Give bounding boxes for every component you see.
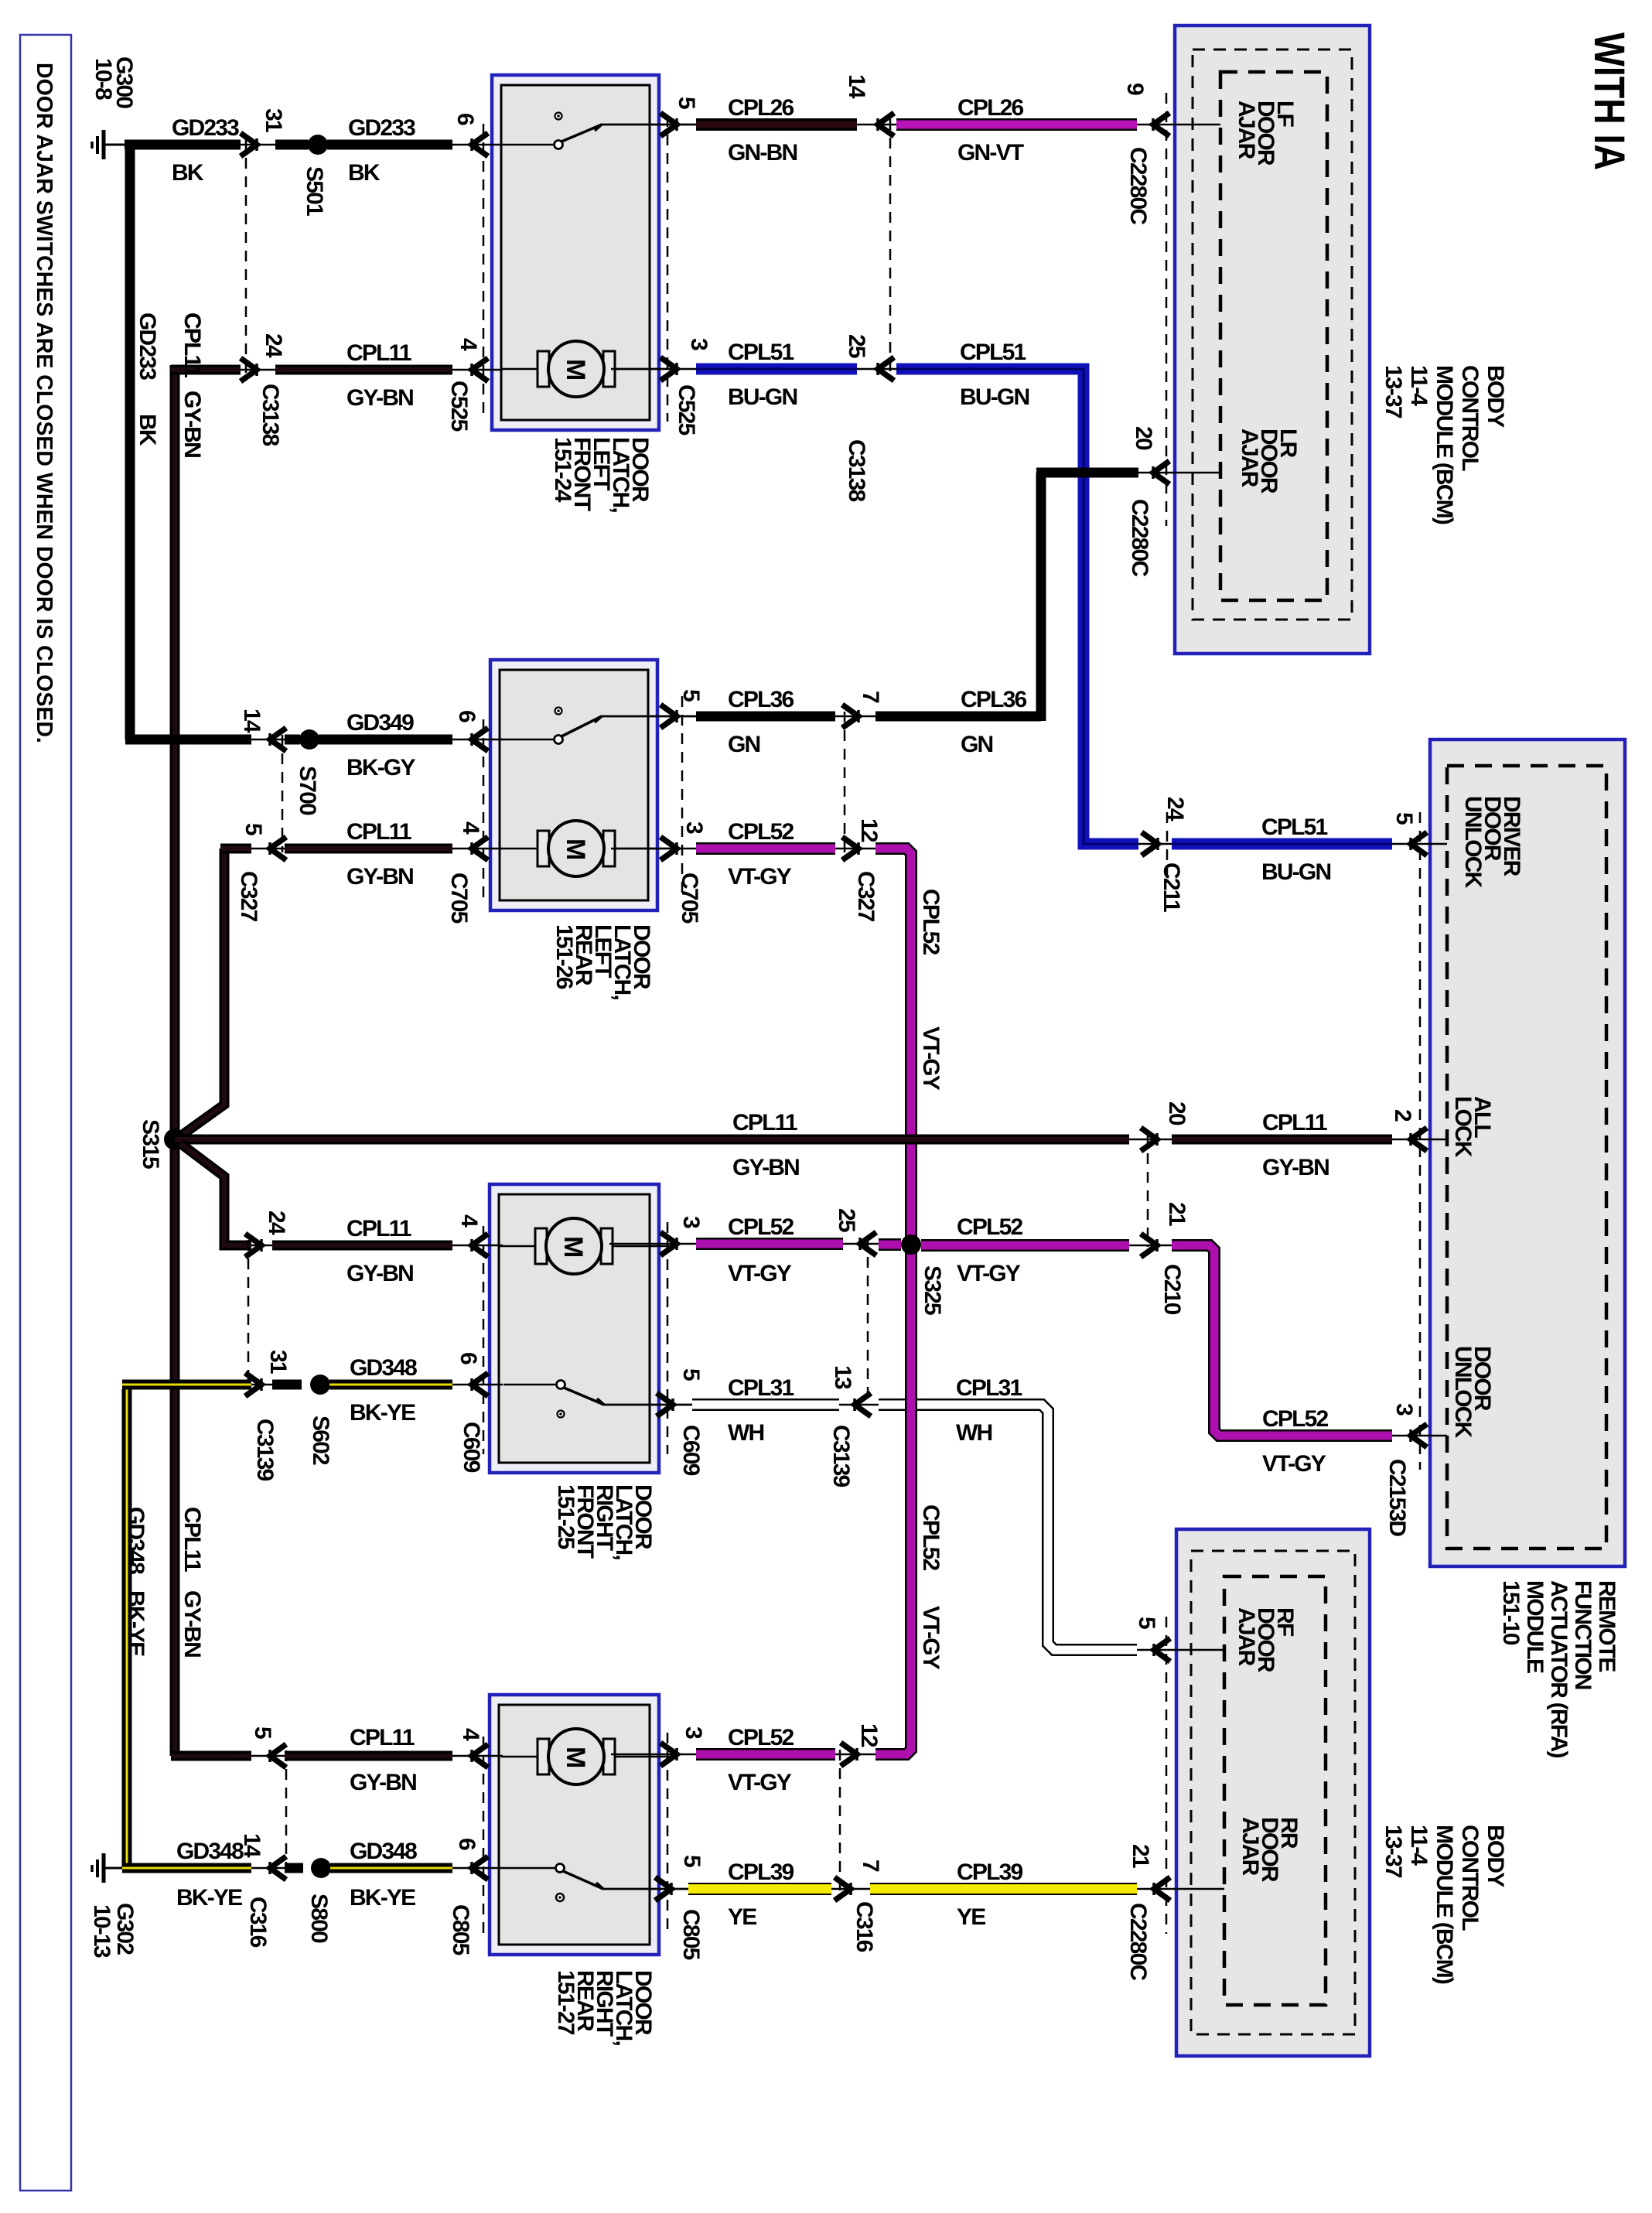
- wire CPL11 GY-BN main bus vertical (row B to S315 to row H): [175, 312, 205, 1756]
- svg-text:BK: BK: [348, 160, 381, 186]
- svg-text:GY-BN: GY-BN: [179, 1590, 205, 1657]
- svg-text:151-24: 151-24: [550, 437, 575, 503]
- svg-text:GD233: GD233: [172, 115, 239, 141]
- wire CPL36 GN C327 to BCM pin 20: [875, 473, 1220, 757]
- svg-text:6: 6: [454, 1838, 480, 1850]
- svg-text:CPL26: CPL26: [957, 95, 1023, 121]
- pin 2 RFA all lock: [1390, 1109, 1427, 1151]
- svg-text:AJAR: AJAR: [1237, 429, 1262, 488]
- svg-text:C3139: C3139: [252, 1419, 278, 1481]
- svg-text:C316: C316: [852, 1901, 877, 1952]
- svg-text:CPL51: CPL51: [1261, 815, 1327, 840]
- svg-text:C609: C609: [459, 1422, 484, 1473]
- wire CPL11 GY-BN S315 branch to row F corner: [180, 1143, 285, 1245]
- ground G300: [90, 56, 137, 159]
- svg-text:GY-BN: GY-BN: [179, 391, 205, 457]
- module BCM bottom (BODY CONTROL MODULE): [1176, 1529, 1508, 2056]
- pin 6 C525 left front: [452, 113, 488, 156]
- connector C316 right pin 7: [835, 1860, 883, 1952]
- wire GD349 BK-GY S700 to LR latch pin 6: [319, 710, 503, 780]
- svg-text:VT-GY: VT-GY: [918, 1606, 944, 1670]
- door latch left front box U-LF: [492, 75, 659, 512]
- note sidebar DOOR AJAR SWITCHES ARE CLOSED WHEN DOOR IS CLOSED: [20, 35, 71, 2191]
- svg-text:5: 5: [241, 823, 266, 835]
- svg-text:C609: C609: [678, 1425, 704, 1476]
- wire CPL11 GY-BN pin24 to RF latch pin 4: [272, 1216, 503, 1286]
- svg-text:13-37: 13-37: [1381, 1825, 1406, 1878]
- wire CPL52 VT-GY pin3 to C327: [696, 819, 875, 890]
- splice S501: [275, 135, 328, 216]
- svg-text:24: 24: [1162, 797, 1188, 821]
- connector C327 left pin 5: [236, 823, 286, 922]
- connector C3139 right pin 25: [834, 1208, 876, 1402]
- wire label CPL11 bus overlay: [179, 312, 205, 457]
- wire CPL11 GY-BN pin5 to LR latch pin 4: [285, 819, 503, 890]
- svg-text:CPL11: CPL11: [732, 1110, 797, 1136]
- pin 9 C2280C BCM: [1122, 83, 1169, 224]
- svg-text:24: 24: [261, 333, 286, 358]
- svg-text:C2280C: C2280C: [1125, 1903, 1151, 1980]
- svg-text:VT-GY: VT-GY: [728, 1770, 792, 1795]
- svg-text:6: 6: [456, 1352, 481, 1364]
- ground G302: [89, 1853, 138, 1958]
- pin 6 C609 right front: [456, 1352, 488, 1473]
- door latch left rear box U-LR: [490, 660, 657, 999]
- svg-text:GY-BN: GY-BN: [732, 1155, 799, 1180]
- svg-text:CONTROL: CONTROL: [1457, 365, 1483, 471]
- wire GD348 BK-YE G302 to pin 14: [122, 1839, 285, 1911]
- svg-text:CPL11: CPL11: [346, 1216, 411, 1241]
- pin 5 C805 right rear: [602, 1855, 705, 1960]
- svg-text:CPL52: CPL52: [728, 819, 794, 845]
- svg-text:C705: C705: [446, 873, 472, 924]
- connector C3139 left pin 31: [245, 1350, 291, 1481]
- svg-text:31: 31: [261, 108, 286, 132]
- svg-text:C211: C211: [1159, 862, 1184, 912]
- svg-text:10-8: 10-8: [90, 58, 116, 100]
- svg-text:3: 3: [681, 1726, 706, 1739]
- svg-text:CPL39: CPL39: [728, 1860, 794, 1885]
- svg-text:BK-YE: BK-YE: [350, 1885, 415, 1911]
- svg-text:14: 14: [239, 1833, 265, 1858]
- svg-text:C2280C: C2280C: [1127, 499, 1152, 576]
- svg-text:4: 4: [458, 821, 483, 835]
- svg-text:5: 5: [250, 1726, 275, 1739]
- svg-text:C805: C805: [678, 1909, 704, 1960]
- svg-text:S700: S700: [295, 766, 320, 815]
- connector C2280C dashed line at BCM bottom: [1166, 1617, 1168, 1934]
- svg-text:151-26: 151-26: [551, 924, 577, 989]
- svg-text:CPL36: CPL36: [961, 687, 1026, 712]
- svg-text:BK-YE: BK-YE: [123, 1590, 148, 1656]
- svg-text:C2280C: C2280C: [1125, 147, 1151, 224]
- svg-text:UNLOCK: UNLOCK: [1450, 1346, 1476, 1439]
- connector C3138 right pin 25: [844, 334, 894, 502]
- wire CPL11 GY-BN pin 24 to LF latch pin 4: [275, 340, 503, 411]
- svg-text:C3138: C3138: [844, 439, 869, 502]
- svg-text:CPL26: CPL26: [728, 95, 794, 121]
- wire CPL52 VT-GY vertical trunk row D to row H: [875, 849, 944, 1754]
- svg-text:25: 25: [844, 334, 869, 358]
- svg-text:S501: S501: [302, 166, 327, 216]
- motor M left rear: [501, 821, 677, 876]
- svg-text:10-13: 10-13: [89, 1904, 114, 1958]
- svg-text:S325: S325: [920, 1265, 945, 1315]
- svg-text:13: 13: [830, 1365, 855, 1389]
- svg-text:7: 7: [858, 1860, 883, 1872]
- wire GD233 BK segment S501 to LF latch pin 6: [327, 115, 503, 186]
- svg-text:3: 3: [678, 1216, 704, 1228]
- svg-text:AJAR: AJAR: [1237, 1817, 1263, 1877]
- svg-text:CPL52: CPL52: [918, 1504, 944, 1570]
- svg-text:14: 14: [844, 74, 869, 99]
- pin 3 C705 left rear: [611, 821, 707, 860]
- svg-text:CPL11: CPL11: [346, 819, 411, 845]
- connector RFA dashed line: [1419, 812, 1422, 1470]
- wire CPL51 BU-GN pin3 to C3138: [696, 340, 897, 410]
- svg-text:5: 5: [674, 97, 699, 109]
- svg-text:S315: S315: [138, 1119, 163, 1169]
- svg-text:5: 5: [1134, 1617, 1159, 1629]
- wire CPL31 WH C3139 to BCM pin 5 RF door ajar: [879, 1375, 1224, 1650]
- svg-text:C805: C805: [448, 1904, 473, 1955]
- svg-text:BK: BK: [172, 160, 204, 186]
- svg-text:6: 6: [454, 710, 480, 722]
- wire CPL11 GY-BN C210 to RFA pin 2 all lock: [1172, 1110, 1447, 1180]
- svg-text:CPL11: CPL11: [179, 1507, 205, 1572]
- svg-text:3: 3: [681, 821, 707, 834]
- svg-text:CPL52: CPL52: [1262, 1406, 1328, 1432]
- svg-text:C327: C327: [853, 871, 879, 922]
- wire CPL52 VT-GY pin3 to C3139 pin 25: [696, 1214, 879, 1286]
- switch left front door ajar: [501, 113, 696, 149]
- wire CPL52 VT-GY trunk overcross: [905, 1377, 917, 1431]
- svg-text:WH: WH: [728, 1420, 764, 1446]
- connector C211 pin 24: [1142, 797, 1188, 912]
- svg-text:CPL31: CPL31: [956, 1375, 1022, 1401]
- title WITH IA: [1585, 32, 1634, 170]
- wire CPL51 BU-GN C3138 to RFA pin 5 via C211: [896, 340, 1172, 844]
- wire GD349 corner bus to pin 14: [125, 735, 285, 745]
- wire CPL39 YE pin5 to C316 pin 7: [688, 1860, 870, 1930]
- svg-text:4: 4: [456, 1214, 482, 1228]
- connector C3138 left dashed: [245, 139, 247, 375]
- svg-text:AJAR: AJAR: [1234, 1607, 1259, 1667]
- pin 4 C805 right rear: [458, 1728, 488, 1767]
- wire GD233 BK segment G300 to pin 31: [125, 115, 285, 186]
- wire CPL52 VT-GY pin3 to C316 pin 12: [696, 1725, 875, 1795]
- svg-text:GY-BN: GY-BN: [346, 385, 413, 411]
- switch right front door ajar: [503, 1381, 698, 1418]
- connector C2280C dashed line at BCM top: [1166, 93, 1168, 526]
- svg-text:4: 4: [458, 1728, 483, 1741]
- wire CPL36 GN pin5 to C327: [696, 687, 875, 757]
- pin 5 C705 left rear: [602, 689, 704, 924]
- door latch right front box U-RF: [490, 1184, 659, 1559]
- door latch right rear box U-RR: [490, 1695, 659, 2045]
- svg-text:GD233: GD233: [135, 312, 160, 380]
- switch left rear door ajar: [501, 708, 696, 744]
- motor M right rear: [501, 1729, 677, 1784]
- svg-text:YE: YE: [728, 1904, 756, 1930]
- svg-text:151-10: 151-10: [1498, 1580, 1524, 1645]
- splice S700: [285, 729, 320, 815]
- connector C316 right pin 12: [840, 1723, 882, 1894]
- svg-text:20: 20: [1164, 1101, 1190, 1125]
- svg-text:25: 25: [834, 1208, 859, 1232]
- pin 6 C805 right rear: [448, 1838, 488, 1955]
- svg-text:WITH IA: WITH IA: [1585, 32, 1634, 170]
- svg-text:VT-GY: VT-GY: [918, 1026, 944, 1091]
- svg-text:BU-GN: BU-GN: [1261, 859, 1330, 885]
- svg-text:12: 12: [856, 1723, 882, 1747]
- svg-text:VT-GY: VT-GY: [957, 1261, 1021, 1286]
- pin 3 C609 right front: [609, 1216, 704, 1255]
- svg-text:C2153D: C2153D: [1384, 1459, 1410, 1536]
- svg-text:GD348: GD348: [123, 1507, 148, 1574]
- svg-text:AJAR: AJAR: [1234, 101, 1259, 160]
- svg-text:6: 6: [452, 113, 478, 125]
- svg-text:5: 5: [678, 1368, 704, 1381]
- pin 3 C525 left front: [611, 338, 712, 381]
- connector C3138 left pin 31: [241, 108, 286, 156]
- module BCM top (BODY CONTROL MODULE): [1175, 26, 1508, 654]
- switch right rear door ajar: [503, 1864, 698, 1902]
- svg-text:S800: S800: [306, 1894, 332, 1943]
- svg-text:3: 3: [1391, 1403, 1417, 1416]
- svg-text:VT-GY: VT-GY: [728, 864, 792, 890]
- svg-text:13-37: 13-37: [1381, 365, 1406, 418]
- wire CPL51 BU-GN C211 to RFA: [1172, 815, 1447, 885]
- connector C705 dashed lines at left rear latch: [483, 696, 682, 897]
- svg-text:S602: S602: [308, 1416, 333, 1465]
- wire GD348 BK-YE S800 to RR latch pin 6: [330, 1839, 503, 1911]
- pin 4 C705 left rear: [458, 821, 488, 860]
- svg-text:151-25: 151-25: [553, 1484, 579, 1549]
- svg-text:CPL52: CPL52: [728, 1214, 794, 1240]
- svg-text:BODY: BODY: [1483, 1825, 1508, 1887]
- pin 5 C525 left front: [446, 97, 699, 435]
- connector C3139 left pin 24: [245, 1211, 289, 1387]
- svg-text:MODULE (BCM): MODULE (BCM): [1432, 1825, 1457, 1984]
- svg-text:BK-YE: BK-YE: [176, 1885, 242, 1911]
- svg-text:M: M: [561, 838, 590, 860]
- svg-text:4: 4: [456, 338, 481, 351]
- svg-text:24: 24: [264, 1211, 289, 1235]
- motor M left front: [501, 341, 677, 397]
- svg-text:5: 5: [1391, 812, 1417, 825]
- svg-text:12: 12: [856, 818, 882, 842]
- svg-text:CPL52: CPL52: [957, 1214, 1022, 1240]
- svg-text:CPL11: CPL11: [346, 340, 411, 366]
- svg-text:CPL51: CPL51: [960, 340, 1026, 365]
- connector C316 left pin 14: [239, 1833, 286, 1948]
- svg-text:14: 14: [239, 709, 265, 733]
- pin 21 C2280C BCM RR door ajar: [1125, 1844, 1170, 1980]
- svg-text:C3139: C3139: [828, 1425, 854, 1487]
- svg-text:FUNCTION: FUNCTION: [1570, 1580, 1596, 1689]
- svg-text:DOOR AJAR SWITCHES ARE CLOSED: DOOR AJAR SWITCHES ARE CLOSED WHEN DOOR …: [32, 63, 56, 743]
- pin 5 RFA driver door unlock: [1391, 812, 1427, 855]
- splice S315: [138, 1119, 186, 1169]
- svg-text:BU-GN: BU-GN: [960, 384, 1029, 410]
- svg-text:GN-BN: GN-BN: [728, 140, 797, 166]
- wire CPL11 GY-BN row H corner to pin 5: [171, 1751, 285, 1761]
- svg-text:ACTUATOR (RFA): ACTUATOR (RFA): [1546, 1580, 1572, 1757]
- splice S325: [879, 1235, 945, 1315]
- svg-text:BK: BK: [135, 414, 160, 446]
- svg-text:C525: C525: [674, 384, 699, 435]
- connector C316 left pin 5: [250, 1726, 286, 1872]
- connector C327 right pin 12: [842, 818, 882, 922]
- module RFA (REMOTE FUNCTION ACTUATOR): [1430, 739, 1625, 1757]
- connector C3138 left pin 24: [241, 333, 286, 446]
- svg-text:CPL52: CPL52: [728, 1725, 794, 1750]
- connector C3139 right pin 13: [828, 1365, 871, 1487]
- svg-text:31: 31: [265, 1350, 291, 1374]
- svg-text:11-4: 11-4: [1406, 1825, 1432, 1866]
- wire GD233 BK ground bus vertical (G300 to row C): [130, 141, 160, 739]
- splice S602: [272, 1375, 333, 1465]
- svg-text:7: 7: [858, 691, 883, 703]
- svg-text:GN: GN: [728, 732, 760, 757]
- svg-text:21: 21: [1164, 1202, 1190, 1226]
- svg-text:VT-GY: VT-GY: [1262, 1451, 1326, 1477]
- svg-text:C525: C525: [446, 381, 472, 432]
- svg-text:2: 2: [1390, 1109, 1415, 1122]
- svg-text:11-4: 11-4: [1406, 365, 1432, 406]
- svg-text:UNLOCK: UNLOCK: [1460, 796, 1486, 889]
- svg-text:9: 9: [1122, 83, 1148, 95]
- svg-text:20: 20: [1131, 426, 1156, 450]
- svg-text:GD348: GD348: [350, 1355, 417, 1381]
- svg-text:M: M: [558, 1236, 588, 1258]
- wire CPL26 GN-BN pin5 to C3138: [696, 95, 897, 166]
- wire GD348 BK-YE bus vertical row G to G302: [123, 1389, 148, 1868]
- wire CPL11 GY-BN row E S315 to C210 pin 20: [175, 1110, 1172, 1180]
- svg-text:GD348: GD348: [350, 1839, 417, 1864]
- pin 4 C525 left front: [456, 338, 488, 381]
- motor M right front: [499, 1218, 674, 1274]
- svg-text:CPL31: CPL31: [728, 1375, 794, 1401]
- wire CPL11 GY-BN row D corner to pin 5: [220, 844, 285, 854]
- connector C210 pin 21: [1141, 1202, 1190, 1315]
- svg-text:M: M: [561, 1747, 590, 1768]
- wire CPL11 GY-BN bus labels lower: [179, 1507, 205, 1657]
- connector C327 right pin 7: [842, 691, 883, 852]
- svg-text:CPL11: CPL11: [179, 312, 205, 377]
- svg-text:CPL39: CPL39: [957, 1860, 1022, 1885]
- svg-text:GD349: GD349: [346, 710, 414, 736]
- wire CPL11 GY-BN row D branch vertical to S315: [180, 849, 224, 1136]
- svg-text:BK-GY: BK-GY: [346, 755, 415, 780]
- connector C805 dashed lines at right rear latch: [483, 1733, 667, 1934]
- svg-text:GD233: GD233: [348, 115, 415, 141]
- svg-text:GY-BN: GY-BN: [346, 1261, 413, 1286]
- wire CPL11 GY-BN row B corner to pin 24: [171, 365, 285, 375]
- svg-text:CPL52: CPL52: [918, 889, 944, 955]
- connector C609 dashed lines at right front latch: [483, 1222, 667, 1454]
- wire GD348 BK-YE row G corner to pin 31: [122, 1355, 417, 1426]
- svg-text:M: M: [561, 359, 590, 381]
- svg-text:REMOTE: REMOTE: [1594, 1580, 1620, 1672]
- svg-text:GN-VT: GN-VT: [957, 140, 1024, 166]
- svg-text:C327: C327: [236, 871, 261, 922]
- svg-text:BK-YE: BK-YE: [350, 1400, 415, 1426]
- connector C327 left pin 14: [239, 709, 286, 852]
- pin 4 C609 right front: [456, 1214, 488, 1257]
- svg-text:YE: YE: [957, 1904, 985, 1930]
- wire CPL26 GN-VT C3138 to BCM pin 9: [896, 95, 1220, 166]
- svg-text:151-27: 151-27: [553, 1970, 579, 2035]
- splice S800: [285, 1858, 332, 1943]
- svg-text:GD348: GD348: [176, 1839, 244, 1864]
- pin 5 C609 right front: [602, 1368, 704, 1476]
- pin 20 C2280C BCM: [1127, 426, 1169, 576]
- wire CPL52 VT-GY C210 to RFA pin 3 door unlock: [1172, 1245, 1447, 1477]
- pin 3 C805 right rear: [611, 1726, 706, 1766]
- connector C3138 right pin 14: [844, 74, 894, 375]
- svg-text:LOCK: LOCK: [1450, 1096, 1476, 1158]
- svg-text:C316: C316: [245, 1897, 271, 1948]
- svg-text:CPL11: CPL11: [350, 1725, 415, 1750]
- connector C525 dashed lines at left front latch: [483, 116, 667, 422]
- svg-text:CPL51: CPL51: [728, 340, 794, 365]
- pin 3 C2153D RFA door unlock: [1384, 1403, 1427, 1536]
- svg-text:3: 3: [686, 338, 712, 350]
- svg-text:GN: GN: [961, 732, 993, 757]
- svg-text:G302: G302: [112, 1903, 138, 1955]
- svg-text:5: 5: [678, 689, 704, 702]
- wire CPL52 VT-GY S325 to C210 pin 21: [921, 1214, 1172, 1286]
- svg-text:5: 5: [679, 1855, 705, 1867]
- svg-text:CPL36: CPL36: [728, 687, 794, 712]
- svg-text:MODULE: MODULE: [1522, 1580, 1548, 1673]
- svg-text:GY-BN: GY-BN: [346, 864, 413, 890]
- pin 6 C705 left rear: [446, 710, 488, 924]
- wire CPL11 GY-BN pin5 to RR latch pin 4: [285, 1725, 503, 1795]
- pin 5 BCM RF door ajar: [1134, 1617, 1170, 1661]
- connector C210 pin 20: [1141, 1101, 1190, 1247]
- svg-text:21: 21: [1128, 1844, 1153, 1868]
- wire CPL39 YE C316 to BCM pin 21 RR door ajar: [870, 1860, 1224, 1930]
- svg-text:GY-BN: GY-BN: [1262, 1155, 1329, 1180]
- svg-text:CPL11: CPL11: [1262, 1110, 1327, 1136]
- wire GD348 BK-YE S602 to RF latch pin 6: [329, 1380, 503, 1390]
- svg-text:C3138: C3138: [258, 384, 283, 446]
- wire CPL31 WH pin5 to C3139 pin 13: [692, 1375, 879, 1446]
- svg-text:GY-BN: GY-BN: [350, 1770, 416, 1795]
- svg-text:WH: WH: [956, 1420, 992, 1446]
- svg-text:C210: C210: [1159, 1264, 1185, 1315]
- svg-text:BODY: BODY: [1483, 365, 1508, 428]
- svg-text:BU-GN: BU-GN: [728, 384, 797, 410]
- svg-text:VT-GY: VT-GY: [728, 1261, 792, 1286]
- svg-text:CONTROL: CONTROL: [1457, 1825, 1483, 1931]
- svg-text:C705: C705: [677, 873, 702, 924]
- svg-text:MODULE (BCM): MODULE (BCM): [1432, 365, 1457, 524]
